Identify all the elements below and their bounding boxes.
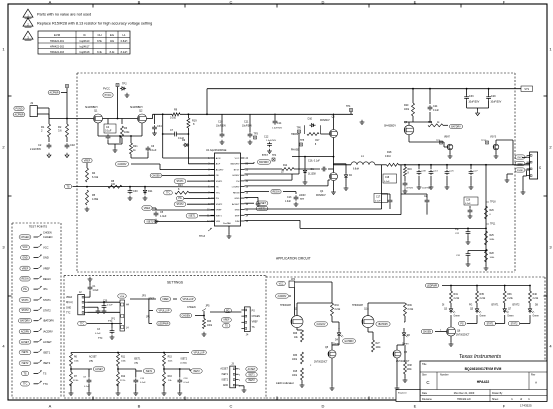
svg-text:VFB: VFB	[216, 221, 221, 223]
svg-text:STAT1: STAT1	[43, 298, 51, 302]
svg-text:100: 100	[111, 183, 116, 186]
svg-text:LEDPWR: LEDPWR	[427, 284, 438, 287]
svg-text:ISET1: ISET1	[248, 375, 255, 377]
svg-text:10uF/50V: 10uF/50V	[216, 126, 226, 128]
svg-text:100k: 100k	[376, 347, 382, 349]
svg-text:C: C	[230, 0, 233, 4]
svg-text:4.99k: 4.99k	[92, 198, 99, 201]
svg-text:TP2: TP2	[122, 83, 127, 86]
svg-text:BTST: BTST	[234, 169, 240, 171]
svg-text:24M: 24M	[235, 221, 239, 223]
svg-text:Parts with no value are not us: Parts with no value are not used	[37, 13, 91, 17]
svg-text:bq24618: bq24618	[80, 51, 90, 54]
svg-text:Filename: Filename	[422, 398, 433, 401]
svg-text:C: C	[426, 380, 429, 385]
svg-text:VDE: VDE	[120, 296, 125, 298]
svg-text:STAT2: STAT2	[511, 322, 519, 325]
svg-text:LED indicator: LED indicator	[276, 381, 294, 385]
svg-text:Sheet: Sheet	[492, 398, 499, 401]
svg-text:2.21k: 2.21k	[454, 298, 460, 300]
svg-text:R40: R40	[533, 293, 538, 296]
svg-text:32.4k: 32.4k	[73, 380, 79, 382]
svg-text:L1: L1	[122, 33, 126, 37]
svg-text:FDS8447: FDS8447	[316, 195, 326, 197]
svg-text:8.4k: 8.4k	[110, 51, 115, 54]
svg-text:SYS: SYS	[524, 89, 529, 91]
svg-text:TTC: TTC	[216, 192, 221, 194]
svg-text:/ACDRV: /ACDRV	[118, 163, 127, 166]
svg-text:VREF: VREF	[252, 322, 259, 324]
svg-text:Mon Dec 21, 2009: Mon Dec 21, 2009	[454, 392, 475, 395]
svg-text:C33: C33	[469, 95, 474, 98]
svg-text:10uF/50V: 10uF/50V	[422, 188, 432, 190]
svg-text:HPA422: HPA422	[477, 380, 490, 384]
svg-text:8.4k: 8.4k	[97, 51, 102, 54]
svg-text:LODRV: LODRV	[232, 187, 240, 189]
svg-text:/PG: /PG	[43, 287, 47, 291]
svg-text:TP13: TP13	[199, 235, 206, 238]
svg-text:Date: Date	[422, 392, 428, 395]
svg-text:1.0uF: 1.0uF	[93, 290, 99, 292]
svg-text:PG: PG	[460, 323, 464, 325]
svg-text:R16: R16	[408, 169, 413, 171]
svg-text:PGND: PGND	[517, 170, 524, 172]
svg-text:CHGEN: CHGEN	[181, 314, 190, 317]
svg-text:VCC: VCC	[22, 246, 27, 249]
svg-text:10uF/50V: 10uF/50V	[468, 100, 479, 103]
svg-text:CHGEN: CHGEN	[43, 232, 52, 235]
svg-text:3L1358: 3L1358	[308, 174, 316, 176]
svg-text:VREF: VREF	[162, 298, 169, 301]
svg-text:REGN: REGN	[22, 278, 29, 281]
svg-text:0.1uF: 0.1uF	[384, 181, 390, 183]
svg-text:DI: DI	[442, 305, 445, 307]
svg-text:0.1uF: 0.1uF	[150, 149, 157, 152]
svg-text:0.010: 0.010	[170, 117, 177, 120]
svg-text:ACDRV: ACDRV	[216, 168, 224, 171]
svg-text:VREF: VREF	[22, 267, 29, 270]
svg-text:GND: GND	[66, 307, 71, 309]
svg-text:ACSET: ACSET	[89, 356, 97, 359]
svg-text:PVCC: PVCC	[103, 88, 110, 91]
svg-text:C: C	[230, 403, 233, 408]
svg-text:TP4: TP4	[346, 105, 351, 108]
svg-text:STAT1: STAT1	[216, 180, 223, 183]
svg-text:C26: C26	[466, 200, 471, 202]
svg-text:A: A	[535, 381, 537, 385]
svg-text:ACSET: ACSET	[220, 368, 228, 371]
svg-text:VPULLUP: VPULLUP	[159, 309, 170, 312]
svg-text:ISET2: ISET2	[193, 371, 200, 373]
svg-text:R23: R23	[207, 321, 212, 323]
svg-text:ACPWR: ACPWR	[50, 91, 59, 94]
svg-text:C18: C18	[218, 121, 223, 124]
svg-text:CHGEN: CHGEN	[252, 316, 261, 318]
svg-text:VREF: VREF	[216, 210, 222, 212]
svg-text:100k: 100k	[404, 109, 410, 111]
svg-text:Number: Number	[440, 374, 449, 377]
svg-text:EVM: EVM	[54, 33, 61, 37]
svg-text:2.21k: 2.21k	[335, 309, 341, 311]
svg-text:ISET1: ISET1	[134, 359, 141, 361]
svg-text:Replace R15/R28 with 8.13 resi: Replace R15/R28 with 8.13 resistor for h…	[37, 22, 152, 26]
svg-text:CHGEN: CHGEN	[423, 331, 432, 333]
svg-text:R26: R26	[293, 333, 298, 335]
svg-text:[4A]: [4A]	[89, 359, 93, 362]
svg-text:0.1uF: 0.1uF	[184, 382, 190, 384]
svg-text:VCC: VCC	[279, 283, 284, 285]
svg-text:TS: TS	[66, 185, 69, 188]
svg-text:R2: R2	[58, 125, 62, 129]
svg-text:REGN: REGN	[273, 190, 280, 193]
svg-text:2.21k: 2.21k	[533, 298, 539, 300]
svg-text:R18: R18	[387, 151, 392, 154]
svg-text:GATDRV: GATDRV	[344, 340, 354, 343]
svg-text:Green: Green	[454, 315, 461, 318]
svg-text:ISET2: ISET2	[181, 359, 188, 361]
svg-text:D: D	[322, 0, 325, 4]
svg-text:C16, 0.1uF: C16, 0.1uF	[308, 160, 320, 163]
svg-text:ACSET: ACSET	[232, 203, 240, 206]
svg-text:1743525: 1743525	[520, 404, 532, 408]
svg-text:GND: GND	[43, 256, 49, 260]
svg-text:0.1uF: 0.1uF	[107, 304, 113, 306]
svg-text:10uF/50V: 10uF/50V	[404, 188, 414, 190]
svg-text:/ACDRV: /ACDRV	[43, 330, 53, 334]
svg-text:ACSET: ACSET	[248, 368, 256, 371]
svg-text:TTC: TTC	[166, 193, 171, 195]
svg-text:1.0uF/50V: 1.0uF/50V	[272, 128, 283, 130]
svg-text:HPA422.sch: HPA422.sch	[457, 398, 471, 401]
svg-text:R35: R35	[480, 293, 485, 296]
svg-text:2.2uF/50V: 2.2uF/50V	[30, 148, 41, 151]
svg-text:TP11: TP11	[490, 224, 496, 226]
svg-text:R36: R36	[507, 293, 512, 296]
svg-text:BATDRV: BATDRV	[451, 125, 461, 128]
svg-text:100k: 100k	[207, 325, 213, 327]
svg-text:100k: 100k	[407, 369, 413, 371]
svg-text:R1: R1	[41, 125, 45, 129]
svg-text:/STAT2: /STAT2	[512, 304, 520, 307]
svg-text:JP5: JP5	[205, 305, 210, 308]
svg-text:IC: IC	[83, 33, 86, 37]
svg-text:A: A	[49, 0, 52, 4]
svg-text:of: of	[520, 398, 522, 401]
svg-text:SETTINGS: SETTINGS	[167, 281, 183, 285]
svg-text:R28: R28	[490, 253, 495, 255]
svg-text:ACDRV: ACDRV	[21, 330, 30, 333]
svg-text:BQ24610/617EVM EVM: BQ24610/617EVM EVM	[465, 367, 502, 371]
svg-text:6.8uH: 6.8uH	[353, 169, 359, 171]
svg-text:D10: D10	[308, 118, 313, 121]
svg-text:CE: CE	[216, 175, 220, 177]
svg-text:R15: R15	[293, 371, 298, 373]
svg-text:TS: TS	[225, 326, 228, 328]
svg-text:TEST POINTS: TEST POINTS	[29, 225, 47, 229]
svg-text:VBAT: VBAT	[517, 162, 523, 165]
svg-text:R34: R34	[335, 305, 340, 307]
svg-text:ACPWR: ACPWR	[15, 113, 24, 116]
svg-text:SRN: SRN	[235, 210, 240, 212]
svg-text:100k: 100k	[292, 359, 298, 361]
svg-text:ISET1: ISET1	[222, 374, 229, 376]
svg-text:L000V: L000V	[299, 195, 306, 197]
svg-text:JP3: JP3	[142, 295, 147, 298]
svg-text:R22: R22	[428, 122, 433, 124]
svg-text:VREF: VREF	[144, 207, 151, 210]
svg-text:D: D	[322, 403, 325, 408]
svg-text:REGN: REGN	[43, 277, 51, 281]
svg-text:ISET2: ISET2	[222, 380, 229, 382]
svg-text:BATDRV: BATDRV	[231, 163, 240, 166]
svg-text:HIDRV: HIDRV	[233, 175, 240, 177]
svg-text:HPA422-003: HPA422-003	[50, 51, 65, 54]
svg-text:VREF: VREF	[43, 266, 50, 270]
svg-text:Drawn By: Drawn By	[492, 392, 503, 395]
svg-text:ACSET: ACSET	[21, 341, 30, 344]
svg-text:JP4: JP4	[291, 278, 296, 281]
svg-text:ISET2: ISET2	[147, 220, 154, 223]
svg-text:0.1uF: 0.1uF	[375, 200, 381, 202]
svg-text:R16: R16	[168, 376, 173, 378]
svg-text:TTC: TTC	[43, 382, 48, 386]
svg-text:PG: PG	[23, 288, 27, 291]
svg-text:STAT1: STAT1	[176, 180, 184, 183]
svg-text:BTST: BTST	[262, 155, 268, 157]
svg-text:0.1uF: 0.1uF	[140, 382, 146, 384]
svg-text:22.1k: 22.1k	[120, 380, 126, 382]
svg-text:STAT2: STAT2	[21, 309, 29, 312]
svg-text:/STAT1: /STAT1	[491, 304, 499, 307]
svg-text:2N7002DICT: 2N7002DICT	[314, 362, 328, 364]
svg-text:TP6: TP6	[297, 126, 302, 129]
svg-text:6.31k: 6.31k	[92, 176, 99, 179]
svg-text:GND: GND	[22, 256, 28, 259]
svg-text:R21: R21	[133, 145, 138, 148]
svg-text:2N7002DICT: 2N7002DICT	[396, 361, 410, 363]
svg-text:VREF: VREF	[223, 320, 230, 322]
svg-text:TS: TS	[252, 327, 255, 329]
svg-text:PG: PG	[216, 198, 219, 200]
svg-text:VPULLUP: VPULLUP	[194, 351, 205, 354]
svg-text:/BATDRV: /BATDRV	[378, 323, 388, 326]
svg-text:VPULLUP: VPULLUP	[183, 298, 194, 301]
svg-text:0.1uF: 0.1uF	[465, 203, 471, 205]
svg-text:PHASE: PHASE	[291, 149, 300, 152]
svg-text:BATDRV: BATDRV	[20, 320, 30, 323]
svg-text:ACP: ACP	[216, 163, 221, 166]
svg-text:R12: R12	[121, 376, 126, 378]
svg-text:EG: EG	[110, 33, 114, 37]
svg-text:PH: PH	[236, 181, 239, 183]
svg-text:TP7: TP7	[300, 199, 305, 201]
svg-text:2.31k: 2.31k	[408, 309, 414, 311]
svg-text:R39: R39	[408, 305, 413, 307]
svg-text:C30: C30	[133, 190, 138, 193]
svg-text:0.1uF: 0.1uF	[105, 130, 112, 133]
svg-text:100k: 100k	[292, 375, 298, 377]
svg-text:R26: R26	[490, 210, 495, 212]
svg-text:10uF/50V: 10uF/50V	[490, 100, 501, 103]
svg-text:STAT2: STAT2	[176, 203, 184, 206]
svg-text:TS: TS	[23, 372, 26, 375]
svg-text:U1 bq24610RGE: U1 bq24610RGE	[206, 148, 227, 152]
svg-text:C11: C11	[244, 121, 249, 124]
svg-text:TP5: TP5	[300, 140, 305, 142]
svg-text:VREF: VREF	[66, 297, 73, 299]
svg-text:CH: CH	[97, 33, 101, 37]
svg-text:TTC: TTC	[80, 323, 85, 325]
svg-text:D[3,A]: D[3,A]	[66, 301, 73, 304]
svg-text:CHGEN: CHGEN	[187, 306, 196, 309]
svg-text:GND: GND	[223, 385, 228, 387]
svg-text:(2A): (2A)	[134, 361, 138, 364]
svg-text:ACSET: ACSET	[258, 202, 267, 205]
svg-text:VBAT: VBAT	[444, 136, 450, 139]
svg-text:/BATDRV: /BATDRV	[43, 319, 54, 323]
svg-text:STAT2: STAT2	[216, 203, 223, 206]
svg-text:TTC: TTC	[23, 383, 28, 386]
svg-text:Size: Size	[422, 374, 427, 377]
svg-text:8.2uH: 8.2uH	[121, 51, 128, 54]
svg-text:R15: R15	[168, 357, 173, 359]
svg-text:ACN: ACN	[216, 157, 221, 160]
svg-text:/ACGOV: /ACGOV	[317, 323, 326, 326]
svg-text:PVCC: PVCC	[105, 94, 112, 97]
svg-text:REGN: REGN	[233, 192, 240, 194]
svg-text:FDS8447: FDS8447	[320, 120, 330, 122]
svg-text:R38: R38	[408, 365, 413, 367]
svg-text:STAT2: STAT2	[43, 308, 51, 312]
svg-text:D11: D11	[148, 190, 153, 193]
svg-text:Green: Green	[507, 315, 514, 318]
svg-text:TTC: TTC	[98, 338, 103, 340]
svg-text:ISET1: ISET1	[43, 350, 51, 354]
svg-text:VREF: VREF	[84, 159, 91, 162]
svg-text:1.0uF/50V: 1.0uF/50V	[266, 140, 277, 142]
svg-text:BATDRV: BATDRV	[259, 161, 269, 164]
svg-text:VCC: VCC	[43, 245, 49, 249]
svg-text:6.8uH: 6.8uH	[121, 40, 128, 43]
svg-text:HIDRV: HIDRV	[291, 133, 299, 136]
svg-text:STAT1: STAT1	[487, 322, 495, 325]
svg-text:[0.3A]: [0.3A]	[181, 361, 187, 364]
svg-text:ISET2: ISET2	[248, 380, 255, 382]
svg-text:VSYS: VSYS	[490, 137, 497, 139]
svg-text:CHGEN: CHGEN	[43, 235, 52, 239]
svg-text:ISET2: ISET2	[43, 361, 51, 365]
svg-text:2N7002DICT: 2N7002DICT	[456, 335, 470, 337]
svg-text:TP60610H: TP60610H	[352, 305, 363, 307]
svg-text:ISET1: ISET1	[22, 351, 29, 354]
svg-text:A: A	[49, 403, 52, 408]
svg-text:VCC: VCC	[235, 158, 240, 160]
svg-text:1.0uF: 1.0uF	[285, 201, 291, 203]
svg-text:SI4435BDY: SI4435BDY	[384, 126, 396, 128]
svg-text:J1: J1	[30, 101, 34, 105]
svg-text:TP12: TP12	[481, 140, 487, 142]
svg-text:B: B	[138, 403, 141, 408]
svg-text:R27: R27	[376, 343, 381, 345]
svg-text:E: E	[414, 0, 417, 4]
svg-text:R33: R33	[293, 355, 298, 357]
svg-text:HPA422-002: HPA422-002	[50, 45, 65, 48]
svg-text:Engineer: Engineer	[398, 392, 407, 395]
svg-text:C17: C17	[376, 197, 381, 199]
svg-text:Green: Green	[533, 315, 540, 318]
svg-text:C24: C24	[433, 105, 438, 108]
svg-text:TP4: TP4	[272, 155, 277, 157]
svg-text:ISET1: ISET1	[146, 371, 153, 373]
svg-text:ISET1: ISET1	[189, 215, 196, 218]
svg-text:ISET2: ISET2	[22, 362, 29, 365]
svg-text:TP60610H: TP60610H	[280, 305, 291, 307]
svg-text:C18: C18	[385, 177, 390, 179]
svg-text:PG: PG	[252, 311, 256, 313]
svg-text:bq24617: bq24617	[80, 45, 90, 48]
svg-text:PGND: PGND	[16, 107, 23, 110]
svg-text:/ACDRV: /ACDRV	[278, 295, 287, 298]
svg-text:2.21k: 2.21k	[507, 298, 513, 300]
svg-text:C14: C14	[277, 122, 282, 125]
svg-text:bq24610: bq24610	[80, 40, 90, 43]
svg-text:100k: 100k	[124, 131, 130, 134]
svg-text:R31: R31	[454, 293, 459, 296]
svg-text:E: E	[414, 403, 417, 408]
svg-text:0.1uF: 0.1uF	[95, 333, 101, 335]
svg-text:ISET1: ISET1	[216, 215, 223, 217]
svg-text:APPLICATION CIRCUIT: APPLICATION CIRCUIT	[276, 257, 311, 261]
svg-text:STAT1: STAT1	[21, 299, 29, 302]
svg-text:R13: R13	[178, 184, 183, 187]
svg-text:2.21k: 2.21k	[480, 298, 486, 300]
svg-text:C34: C34	[157, 125, 162, 128]
svg-text:GND: GND	[234, 198, 239, 200]
svg-text:TS: TS	[43, 371, 47, 375]
svg-text:1.0uF: 1.0uF	[160, 215, 167, 218]
svg-text:LEDPWR: LEDPWR	[158, 322, 169, 325]
svg-text:C29: C29	[491, 95, 496, 98]
svg-text:Green: Green	[480, 315, 487, 318]
svg-text:HPA422-001: HPA422-001	[50, 40, 65, 43]
svg-text:Texas Instruments: Texas Instruments	[459, 354, 502, 360]
svg-text:8.5k: 8.5k	[97, 40, 102, 43]
svg-text:PG: PG	[469, 305, 473, 307]
svg-text:B: B	[138, 0, 141, 4]
svg-text:PwrPAD: PwrPAD	[223, 222, 232, 225]
svg-text:PG: PG	[178, 198, 182, 200]
svg-text:SRP: SRP	[235, 215, 240, 217]
svg-text:0.010: 0.010	[385, 156, 391, 158]
svg-text:CHGEN: CHGEN	[152, 174, 161, 177]
svg-text:R20: R20	[404, 104, 409, 107]
svg-text:Title: Title	[422, 363, 427, 366]
svg-text:TTC: TTC	[66, 313, 71, 315]
svg-text:R14: R14	[283, 165, 288, 167]
svg-text:R25: R25	[490, 235, 495, 237]
svg-text:C32: C32	[70, 143, 75, 147]
svg-text:3.6: 3.6	[58, 129, 62, 133]
svg-text:ACSET: ACSET	[95, 368, 103, 371]
svg-text:ACSET: ACSET	[43, 340, 52, 344]
svg-text:TP18: TP18	[490, 202, 496, 204]
svg-text:C13: C13	[287, 196, 292, 199]
svg-text:CHGEN: CHGEN	[21, 236, 30, 239]
svg-text:0.1uF: 0.1uF	[433, 110, 439, 112]
svg-text:R17: R17	[315, 140, 320, 142]
svg-text:C2: C2	[38, 143, 42, 147]
svg-text:C12: C12	[264, 136, 269, 139]
